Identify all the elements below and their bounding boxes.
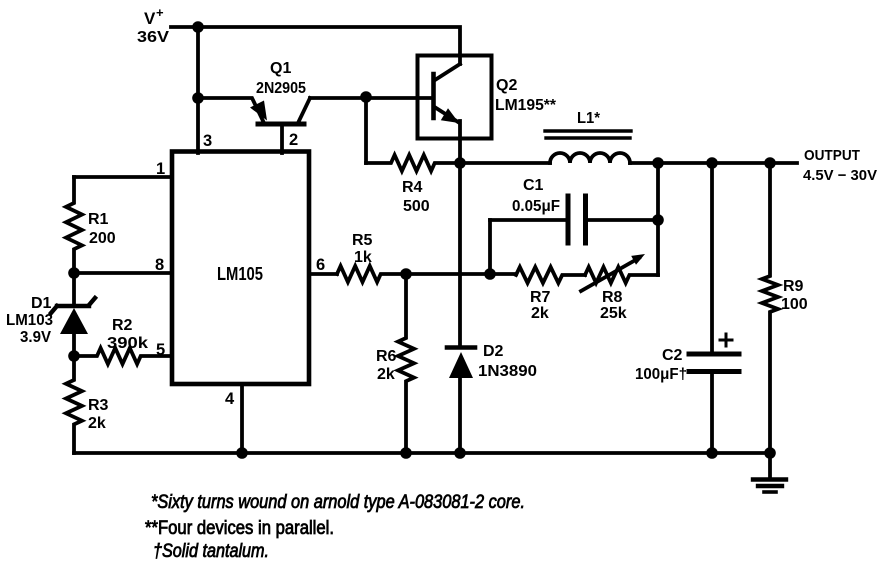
- svg-text:R9: R9: [783, 278, 804, 295]
- svg-text:R7: R7: [530, 289, 551, 306]
- junction: rail / R9 branch: [764, 157, 776, 169]
- wire: pin-6 row from LM105 to R5: [309, 272, 337, 276]
- svg-text:C1: C1: [523, 177, 544, 194]
- junction: R4 / Q2 emitter / D2 / output rail: [454, 157, 466, 169]
- svg-text:R2: R2: [112, 317, 133, 334]
- ground: [753, 453, 786, 492]
- diode D2 (1N3890): [447, 348, 475, 454]
- resistor R3: [66, 356, 82, 453]
- junction: D1 / R2 / R3: [68, 350, 80, 362]
- svg-text:2: 2: [289, 131, 298, 149]
- junction: pin 4 / ground rail: [236, 447, 248, 459]
- svg-text:2k: 2k: [531, 305, 549, 322]
- svg-text:1N3890: 1N3890: [478, 363, 537, 380]
- svg-text:2k: 2k: [377, 366, 395, 383]
- svg-text:R6: R6: [376, 348, 397, 365]
- wire: feedback row to C1/R7 junction (crosses D2 line): [406, 272, 490, 276]
- svg-text:R8: R8: [602, 289, 623, 306]
- capacitor C2 (electrolytic): [689, 163, 739, 453]
- svg-text:25k: 25k: [600, 305, 627, 322]
- svg-text:200: 200: [89, 230, 116, 247]
- svg-text:+: +: [156, 5, 164, 20]
- svg-text:8: 8: [155, 256, 164, 274]
- wire: drop from collector line to R4 row: [364, 97, 368, 163]
- wire: vertical from V+ rail down to LM105 pin 3: [196, 27, 200, 153]
- resistor R7: [516, 267, 585, 283]
- svg-text:*Sixty turns wound on arnold t: *Sixty turns wound on arnold type A-0830…: [151, 492, 525, 513]
- svg-text:L1*: L1*: [577, 110, 601, 127]
- svg-text:R3: R3: [88, 397, 109, 414]
- junction: R9 / ground rail / ground symbol: [764, 447, 776, 459]
- junction: D2 / ground rail: [454, 447, 466, 459]
- svg-text:R1: R1: [88, 211, 109, 228]
- resistor R4: [366, 155, 460, 171]
- node OUTPUT label: [803, 147, 877, 184]
- wire: Q1 collector to Q2 base: [310, 96, 432, 100]
- junction: C2 / ground rail: [706, 447, 718, 459]
- inductor L1: [545, 131, 631, 163]
- junction: R1 / D1 / pin 8: [68, 267, 80, 279]
- junction: V+ rail / pin-3 drop: [192, 21, 204, 33]
- polarity + mark: [720, 334, 732, 346]
- wire: ground rail bottom: [74, 451, 770, 455]
- svg-text:5: 5: [156, 341, 165, 359]
- wire: pin 4 lead to ground rail: [240, 384, 244, 453]
- svg-text:36V: 36V: [137, 29, 169, 46]
- svg-text:100: 100: [781, 296, 808, 313]
- junction: rail / C1 feedback branch: [652, 157, 664, 169]
- svg-text:500: 500: [403, 198, 430, 215]
- zener diode D1 (LM103 3.9V): [51, 273, 95, 356]
- svg-text:D1: D1: [31, 295, 52, 312]
- svg-text:R4: R4: [402, 179, 423, 196]
- transistor Q1 (2N2905 PNP): [250, 98, 310, 153]
- svg-text:0.05μF: 0.05μF: [512, 198, 560, 215]
- svg-text:LM195**: LM195**: [495, 97, 557, 114]
- wire: pin 1 lead: [74, 175, 172, 179]
- svg-text:1k: 1k: [354, 249, 372, 266]
- resistor R6: [398, 274, 414, 453]
- wire: junction to R7: [490, 272, 516, 276]
- svg-text:390k: 390k: [107, 335, 148, 352]
- wire: V+ rail top, turns down into Q2 collector: [171, 27, 460, 64]
- wire: output rail from inductor to output terminal: [630, 161, 797, 165]
- svg-text:Q2: Q2: [496, 77, 517, 94]
- junction: rail / C2 branch: [706, 157, 718, 169]
- junction: R5 / R6 branch: [400, 268, 412, 280]
- wire: C1 right-side vertical from rail to R8 corner: [656, 163, 660, 275]
- junction: collector line / R4 branch: [360, 91, 372, 103]
- wire: pin 8 lead: [74, 271, 172, 275]
- svg-text:Q1: Q1: [270, 60, 291, 77]
- transistor Q2 (LM195 NPN, boxed): [418, 56, 492, 164]
- svg-text:†Solid tantalum.: †Solid tantalum.: [153, 541, 269, 562]
- resistor R1: [66, 177, 82, 273]
- junction: R6 / ground rail: [400, 447, 412, 459]
- svg-text:R5: R5: [352, 232, 373, 249]
- svg-text:3: 3: [203, 132, 212, 150]
- node V+ : supply label: [137, 5, 169, 46]
- svg-text:OUTPUT: OUTPUT: [804, 147, 860, 164]
- LM105 regulator U1: [172, 152, 309, 385]
- svg-text:4.5V − 30V: 4.5V − 30V: [803, 167, 877, 184]
- svg-text:1: 1: [156, 160, 165, 178]
- svg-text:D2: D2: [483, 343, 504, 360]
- wire: D2 branch from R4 junction down: [458, 163, 462, 345]
- svg-text:100μF†: 100μF†: [635, 366, 687, 383]
- resistor R2: [74, 348, 172, 364]
- svg-text:C2: C2: [662, 347, 683, 364]
- svg-text:3.9V: 3.9V: [20, 329, 51, 346]
- capacitor C1: [490, 196, 658, 274]
- resistor R9: [762, 163, 778, 453]
- svg-text:LM103: LM103: [6, 312, 53, 329]
- junction: C1 right plate / vertical: [652, 214, 664, 226]
- svg-text:6: 6: [316, 256, 325, 274]
- svg-text:2N2905: 2N2905: [256, 80, 306, 97]
- svg-text:2k: 2k: [88, 415, 106, 432]
- resistor R8 (variable): [581, 254, 658, 291]
- svg-text:**Four devices in parallel.: **Four devices in parallel.: [145, 518, 334, 539]
- resistor R5: [337, 266, 406, 282]
- svg-text:V: V: [144, 9, 156, 28]
- svg-text:LM105: LM105: [217, 264, 263, 284]
- wire: Q1 emitter lead from junction: [198, 98, 264, 123]
- junction: C1 left / R7: [484, 268, 496, 280]
- svg-text:4: 4: [225, 390, 235, 408]
- junction: pin-3 line / Q1 emitter branch: [192, 92, 204, 104]
- wire: output rail from junction to inductor: [460, 161, 550, 165]
